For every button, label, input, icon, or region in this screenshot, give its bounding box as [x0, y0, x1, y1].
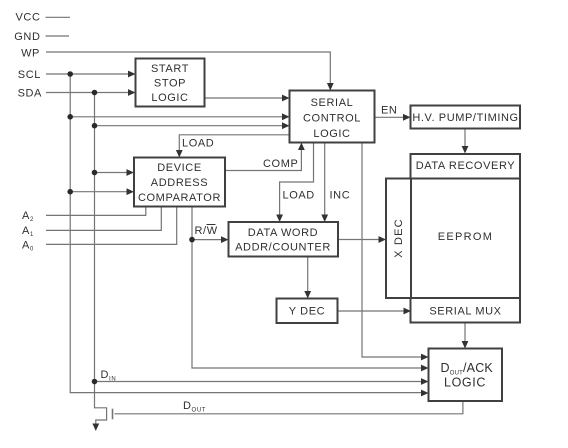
svg-text:SERIAL: SERIAL: [311, 97, 354, 109]
svg-text:LOAD: LOAD: [283, 190, 315, 202]
svg-text:SDA: SDA: [18, 87, 42, 99]
svg-text:COMP: COMP: [263, 158, 298, 170]
svg-text:GND: GND: [14, 31, 40, 43]
svg-text:ADDR/COUNTER: ADDR/COUNTER: [235, 242, 331, 254]
svg-text:SERIAL MUX: SERIAL MUX: [429, 306, 501, 318]
svg-text:R/W: R/W: [195, 225, 218, 237]
svg-text:H.V. PUMP/TIMING: H.V. PUMP/TIMING: [412, 112, 518, 124]
svg-text:ADDRESS: ADDRESS: [151, 177, 208, 189]
svg-text:SCL: SCL: [18, 69, 41, 81]
svg-text:DEVICE: DEVICE: [157, 162, 202, 174]
svg-text:START: START: [151, 63, 189, 75]
svg-text:LOGIC: LOGIC: [313, 128, 350, 140]
svg-text:Y DEC: Y DEC: [289, 306, 325, 318]
svg-text:DOUT/ACK: DOUT/ACK: [441, 361, 494, 377]
svg-text:LOGIC: LOGIC: [151, 92, 188, 104]
svg-text:EN: EN: [381, 105, 397, 117]
svg-text:DATA RECOVERY: DATA RECOVERY: [416, 160, 516, 172]
svg-text:COMPARATOR: COMPARATOR: [138, 192, 221, 204]
svg-text:EEPROM: EEPROM: [438, 231, 493, 243]
svg-text:LOAD: LOAD: [182, 138, 214, 150]
svg-text:CONTROL: CONTROL: [303, 113, 361, 125]
svg-text:DATA WORD: DATA WORD: [248, 227, 318, 239]
svg-text:VCC: VCC: [15, 12, 40, 24]
svg-text:WP: WP: [21, 47, 40, 59]
svg-text:X DEC: X DEC: [393, 218, 405, 258]
svg-text:LOGIC: LOGIC: [444, 376, 486, 390]
svg-text:STOP: STOP: [154, 78, 186, 90]
svg-text:INC: INC: [330, 190, 351, 202]
